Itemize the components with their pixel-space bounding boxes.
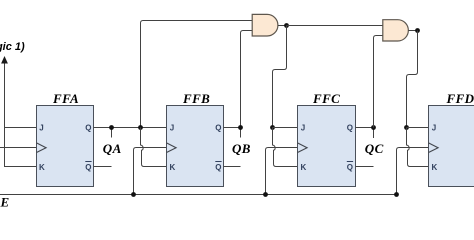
wire: node to FFC.J [273, 127, 298, 129]
wire: QA from FFA.Q to FFB.J [94, 127, 167, 129]
wire: QB from FFB.Q to node [224, 127, 241, 129]
flip-flop FFA [37, 91, 94, 187]
svg-text:Q: Q [347, 163, 353, 172]
wire: node down to FFC.K with hop over clock feed [273, 128, 298, 167]
svg-text:J: J [432, 123, 436, 132]
svg-text:J: J [39, 123, 43, 132]
wire: node down to FFD.K with hop over clock feed [407, 128, 429, 167]
svg-text:Q: Q [215, 123, 221, 132]
svg-text:Q: Q [85, 123, 91, 132]
wire: AND2 output [408, 30, 417, 32]
svg-text:FFB: FFB [182, 91, 210, 106]
svg-text:FFD: FFD [446, 91, 474, 106]
flip-flop FFC [298, 91, 356, 187]
wire: QC from FFC.Q to node [356, 127, 374, 129]
svg-text:FFC: FFC [312, 91, 340, 106]
wire: QC up to AND2 bottom input [374, 36, 383, 128]
svg-text:K: K [432, 163, 438, 172]
wire: FFC.Qbar stub [356, 166, 374, 168]
wire: AND2 output down to FFD J/K node [407, 31, 418, 128]
node QA stub [111, 128, 113, 138]
svg-text:QA: QA [103, 141, 122, 156]
svg-text:J: J [301, 123, 305, 132]
wire: AND1 output [278, 25, 287, 27]
svg-text:K: K [170, 163, 176, 172]
svg-text:Q: Q [215, 163, 221, 172]
wire: FFA.Qbar stub [94, 166, 112, 168]
svg-text:FFA: FFA [52, 91, 79, 106]
svg-text:E: E [0, 195, 10, 210]
wire: clock feed FFD [397, 148, 429, 195]
svg-text:K: K [39, 163, 45, 172]
wire: logic-1 vertical tying FFA J and K [5, 63, 37, 167]
flip-flop FFD [429, 91, 474, 187]
wire: AND1 output down to FFC J/K node [273, 26, 287, 128]
svg-text:QB: QB [232, 141, 251, 156]
wire: FFB.Qbar stub [224, 166, 241, 168]
wire: node to FFD.J [407, 127, 429, 129]
wire: clock feed FFC [266, 148, 298, 195]
svg-text:(logic 1): (logic 1) [0, 41, 25, 53]
svg-text:Q: Q [347, 123, 353, 132]
svg-text:J: J [170, 123, 174, 132]
wire: QA down to FFB.K with hop over clock feed [141, 128, 167, 167]
svg-text:K: K [301, 163, 307, 172]
svg-text:Q: Q [85, 163, 91, 172]
AND gate U2 [383, 20, 409, 41]
wire: clock feed FFB [134, 148, 167, 195]
flip-flop FFB [167, 91, 224, 187]
node QB stub [240, 128, 242, 138]
svg-text:QC: QC [365, 141, 384, 156]
node QC stub [373, 128, 375, 139]
wire: CLOCK input to FFA clock [0, 147, 37, 149]
arrowhead logic 1 [1, 56, 8, 64]
AND gate U1 [252, 14, 278, 36]
wire: QB up to AND1 bottom input [241, 31, 253, 128]
wire: AND1 output to AND2 top input [287, 25, 383, 27]
wire: QA up to AND1 top input [141, 21, 253, 128]
wire: clock bus line [0, 194, 397, 196]
